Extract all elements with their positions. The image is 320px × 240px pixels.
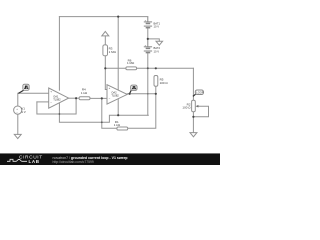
resistor R3 (103, 45, 108, 56)
svg-text:−: − (109, 96, 111, 100)
junction: OA1 output / feedback (75, 97, 77, 99)
wire: OA1 - input stub (37, 101, 49, 103)
label R1 1 kΩ (114, 120, 121, 127)
label BAT2 10 V (154, 46, 161, 53)
wire: pot R2 bottom to ground (192, 112, 194, 133)
wiper arrow of R2 (196, 105, 199, 108)
voltage source V1 (14, 106, 22, 115)
wire: R4 to OA2 - input (90, 97, 107, 99)
label BAT1 10 V (154, 21, 161, 28)
junction: OA2 V- stub / V- rail (117, 114, 119, 116)
label R4 1 kΩ (81, 88, 88, 95)
svg-text:+: + (50, 90, 52, 94)
node flag OUT (at OA2 output) (130, 85, 137, 94)
svg-text:LAB: LAB (29, 159, 40, 164)
svg-text:100 Ω: 100 Ω (160, 81, 169, 85)
svg-text:LOOP: LOOP (196, 91, 203, 95)
svg-text:1 V: 1 V (21, 110, 26, 114)
svg-text:1 MΩ: 1 MΩ (127, 61, 135, 65)
wire: left +V drop to OA1 V+ pin (58, 17, 60, 91)
node flag IN (at V1 / OA1 + input) (18, 84, 29, 93)
junction: crossing blob feedback / OA1 V- stub (59, 113, 61, 115)
label R5 100 Ω (160, 78, 169, 85)
wire: pot wiper tied to bottom terminal (193, 106, 208, 117)
wire: midpoint junction to ground stub (148, 39, 160, 41)
wire: OA2 V- supply stub to V- rail (117, 99, 119, 115)
wire: OA1 feedback loop output to - input (37, 98, 76, 114)
resistor R5 100Ω (sense, above OA2 output junction) (154, 76, 158, 87)
wire: + feedback rail right segment (R6 to LOOP corner) (137, 67, 194, 69)
label V1 1 V (21, 107, 26, 114)
svg-text:10 V: 10 V (154, 25, 160, 29)
wire: OA1 output to R4 (69, 97, 80, 99)
label R3 1 MΩ (109, 47, 117, 54)
node flag LOOP (193, 90, 204, 96)
wire: + feedback rail left segment (R3 column to R6) (105, 67, 126, 69)
wire: OA2 output to sense column (127, 93, 156, 95)
battery BAT1 (144, 17, 152, 28)
wire: OA2 - node drop down to R1 rail (102, 98, 117, 128)
wire: top +V rail (59, 16, 147, 18)
wire: BAT2 bottom column down to V- rail corner (147, 53, 149, 116)
wire: R1 rail to sense column (128, 86, 156, 128)
resistor R4 (between OA1 and OA2) (79, 97, 90, 100)
svg-text:TL082: TL082 (53, 97, 61, 101)
power flag +V (hollow up arrow above R3) (102, 31, 109, 36)
wire: BAT1 bottom to midpoint junction (147, 28, 149, 39)
resistor R1 (feedback rail) (117, 127, 128, 130)
svg-text:100 Ω: 100 Ω (182, 106, 191, 110)
op-amp OA2 (107, 85, 127, 104)
svg-text:1 kΩ: 1 kΩ (81, 91, 88, 95)
wire: power flag stem to R3 top (104, 36, 106, 45)
label R2 100 Ω (182, 102, 191, 109)
junction: R3 column / + feedback rail (104, 67, 106, 69)
footer bar (0, 153, 220, 165)
junction: BAT2 column crossing blob on rail (147, 67, 149, 69)
ground (below pot R2) (190, 133, 197, 137)
junction: BAT1- / BAT2+ / ground (147, 38, 149, 40)
wire: V1 plus terminal up and over to OA1 + input (18, 93, 49, 106)
wire: V1 bottom to ground (17, 114, 19, 134)
svg-text:−: − (50, 100, 52, 104)
wire: V- rail from OA1 V- pin to BAT2 (59, 103, 148, 123)
svg-text:10 V: 10 V (154, 49, 160, 53)
svg-text:+: + (109, 86, 111, 90)
battery BAT2 (144, 39, 152, 53)
junction: crossing blob OA2 output / BAT2 column (147, 93, 149, 95)
junction: crossing blob OA2 - drop / V- rail (101, 121, 103, 123)
svg-text:TL082: TL082 (111, 94, 119, 98)
wire: LOOP column down to pot R2 (192, 68, 194, 100)
ground (below V1) (14, 134, 21, 138)
junction: OA2 output / OUT flag (129, 93, 131, 95)
svg-text:http://circuitlab.com/c77599: http://circuitlab.com/c77599 (53, 160, 94, 164)
wire: OA2 V+ supply drop (117, 17, 119, 90)
junction: rail / R5 top (155, 67, 157, 69)
junction: OA2 output / sense column (155, 93, 157, 95)
ground (battery midpoint) (156, 41, 163, 45)
label R6 1 MΩ (127, 58, 135, 65)
svg-text:1 kΩ: 1 kΩ (114, 123, 121, 127)
junction: R4 / OA2 - input drop (101, 97, 103, 99)
junction: pot bottom / wiper return (192, 116, 194, 118)
wire: R3 bottom to OA2 + input (105, 56, 107, 90)
potentiometer R2 (load in current loop) (192, 100, 199, 112)
resistor R6 (in + feedback rail) (126, 67, 137, 70)
svg-text:1 MΩ: 1 MΩ (109, 50, 117, 54)
junction: +V rail / OA2 supply drop (117, 16, 119, 18)
op-amp OA1 (49, 88, 69, 108)
